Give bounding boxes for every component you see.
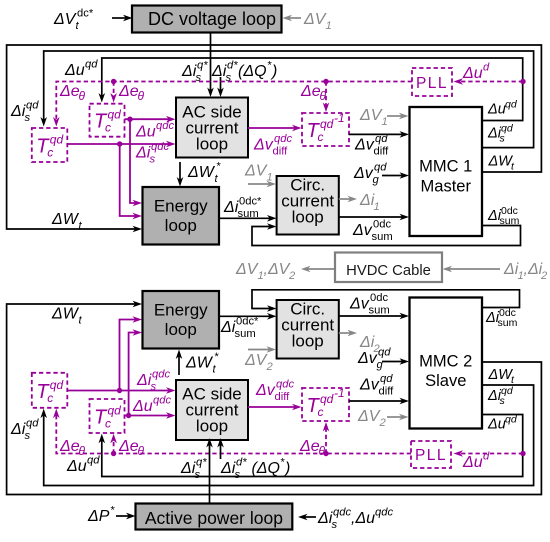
wire ΔP* into Active power loop xyxy=(116,513,136,520)
wire Δi_s^d*(ΔQ*) reference stub into AC side current loop xyxy=(217,77,224,97)
svg-text:Energy: Energy xyxy=(154,301,208,320)
wire Δi_s^qd feedback MMC1 to left T_c^qd xyxy=(40,51,533,148)
junction Δe_θ branch right bottom xyxy=(323,451,328,456)
wire Δi_s^qd feedback MMC2 to left T_c^qd xyxy=(40,385,533,486)
svg-text:loop: loop xyxy=(196,417,228,436)
wire Δu^qdc from middle T_c^qd to AC loop bottom xyxy=(125,412,176,419)
wire Δi_sum^0dc feedback MMC1 to Circ. current loop xyxy=(252,223,521,245)
wire Δv_diff^qd T_c^qd-1 to MMC1 xyxy=(349,131,409,138)
wire Active power loop output Δi_s^q* up to AC loop bottom xyxy=(206,438,213,504)
wire ΔV_2 into MMC2 (gray) xyxy=(387,414,409,421)
svg-text:ΔWt: ΔWt xyxy=(488,367,516,386)
svg-text:MMC 1: MMC 1 xyxy=(419,158,472,176)
wire Δv_sum^0dc Circ. loop to MMC2 xyxy=(339,313,409,320)
svg-text:loop: loop xyxy=(196,135,228,154)
transform T_c^qd (bottom middle) xyxy=(90,399,125,433)
wire Δi_s^qdc from left T_c^qd to AC loop bottom xyxy=(67,387,175,394)
wire Δe_θ branch to T_c^qd-1 bottom (dashed) xyxy=(323,422,330,454)
block AC side current loop (bottom) xyxy=(176,380,248,440)
svg-text:Δi0dcsum: Δi0dcsum xyxy=(487,205,520,227)
wire Δi_sum^0dc feedback MMC2 to Circ. loop xyxy=(252,290,520,312)
junction Δi_s^qdc branch xyxy=(117,141,122,146)
wire Δe_θ branch to middle T_c^qd bottom (dashed) xyxy=(110,434,117,454)
wire Δv_g^qd into MMC2 xyxy=(382,358,409,365)
wire Δi_s^qdc from left T_c^qd to AC side current loop xyxy=(67,141,175,148)
wire ΔV_1 disturbance into DC voltage loop (gray) xyxy=(283,15,302,22)
wire Δi_1 output of Circ. loop (gray) xyxy=(339,196,357,203)
transform T_c^qd-1 (bottom) xyxy=(302,386,349,421)
wire Δi_s^qdc branch up to Energy loop bottom xyxy=(120,316,143,390)
wire Δu^d tap into PLL bottom (dashed) xyxy=(454,450,524,457)
wire ΔV_1 into Circ. current loop (gray) xyxy=(248,181,276,188)
wire PLL output Δe_θ distribution (dashed) xyxy=(53,82,412,127)
block MMC 1 Master xyxy=(410,107,483,236)
wire HVDC cable to ΔV_1,ΔV_2 (gray) xyxy=(301,266,335,273)
block Energy loop (bottom) xyxy=(143,291,220,349)
transform T_c^qd (top middle) xyxy=(90,104,125,137)
svg-text:PLL: PLL xyxy=(415,447,447,464)
wire Δi_s^qdc branch down to Energy loop xyxy=(120,144,142,219)
svg-text:loop: loop xyxy=(292,332,324,351)
wire ΔW_t feedback MMC2 around outer frame to Energy loop xyxy=(7,301,542,495)
block Circ. current loop (bottom) xyxy=(277,300,339,359)
wire ΔW_t^* reference into Energy loop xyxy=(177,162,184,187)
svg-text:DC voltage loop: DC voltage loop xyxy=(148,9,276,29)
svg-text:loop: loop xyxy=(165,216,197,235)
svg-text:Energy: Energy xyxy=(154,197,208,216)
wire ΔV_1 into MMC1 (gray) xyxy=(387,113,409,120)
wire Δv_g^qd into MMC1 xyxy=(382,172,409,179)
svg-text:Active power loop: Active power loop xyxy=(145,508,283,528)
svg-text:Slave: Slave xyxy=(425,372,466,390)
junction Δi_s^qdc branch bottom xyxy=(117,388,122,393)
wire Δv_sum^0dc Circ. loop to MMC1 xyxy=(339,214,409,221)
block AC side current loop (top) xyxy=(176,98,248,158)
wire Δu^qd feedback MMC2 to middle T_c^qd xyxy=(99,415,523,477)
wire ΔV_t^dc* into DC voltage loop xyxy=(112,15,133,22)
wire Δe_θ branch to middle T_c^qd (dashed) xyxy=(110,82,117,103)
wire Δi_sum^0dc* Energy loop to Circ. current loop xyxy=(219,215,277,222)
wire Δv_diff^qdc AC loop to T_c^qd-1 xyxy=(248,125,302,132)
block Energy loop (top) xyxy=(143,187,220,245)
svg-text:ΔWt: ΔWt xyxy=(488,154,516,173)
wire Δu^qd feedback MMC1 to middle T_c^qd xyxy=(99,58,523,121)
wire Δu^qdc branch up to Energy loop bottom xyxy=(129,329,142,415)
junction Δu^qdc branch bottom xyxy=(126,413,131,418)
wire PLL output Δe_θ distribution bottom (dashed) xyxy=(53,409,411,454)
junction Δe_θ branch middle xyxy=(111,79,116,84)
wire Δu^d tap into PLL (dashed) xyxy=(454,78,524,85)
block PLL (bottom) xyxy=(411,441,451,468)
svg-text:PLL: PLL xyxy=(416,75,448,92)
svg-text:MMC 2: MMC 2 xyxy=(419,353,472,371)
junction Δu^d tap bottom xyxy=(520,451,525,456)
block MMC 2 Slave xyxy=(410,298,483,429)
block DC voltage loop xyxy=(132,6,282,33)
block PLL (top) xyxy=(412,68,452,96)
junction Δe_θ branch middle bottom xyxy=(111,451,116,456)
junction Δu^qdc branch xyxy=(127,117,132,122)
wire ΔV_2 into Circ. loop (gray) xyxy=(248,346,276,353)
block HVDC Cable xyxy=(335,253,442,283)
junction Δe_θ branch right xyxy=(323,79,328,84)
svg-text:loop: loop xyxy=(292,208,324,227)
svg-text:Master: Master xyxy=(421,178,472,196)
svg-text:HVDC Cable: HVDC Cable xyxy=(346,263,431,279)
svg-text:loop: loop xyxy=(165,320,197,339)
wire Δi_sum^0dc* Energy loop to Circ. loop bottom xyxy=(219,313,277,320)
transform T_c^qd (bottom left) xyxy=(32,373,68,408)
junction Δu^d tap on Δu^qd feedback xyxy=(520,79,525,84)
wire Δu^qdc branch down to Energy loop xyxy=(130,119,142,206)
block Active power loop xyxy=(136,504,293,530)
wire Δi_1,Δi_2 into HVDC cable (gray) xyxy=(443,266,501,273)
wire Δv_diff^qd T_c^qd-1 to MMC2 xyxy=(349,398,409,405)
wire Δi_s^qdc,Δu^qdc into Active power loop xyxy=(298,514,316,521)
wire Δu^qdc from middle T_c^qd to AC side current loop xyxy=(125,116,176,123)
wire Δi_s^d*(ΔQ*) reference stub bottom xyxy=(217,438,224,459)
transform T_c^qd-1 (top) xyxy=(302,111,349,146)
wire ΔW_t feedback MMC1 around outer frame to Energy loop xyxy=(7,45,542,232)
transform T_c^qd (top left) xyxy=(32,128,68,162)
wire ΔW_t^* reference into Energy loop bottom xyxy=(176,350,183,376)
wire DC voltage loop output Δi_s^q* down to AC side current loop xyxy=(207,33,214,98)
wire Δi_2 output of Circ. loop (gray) xyxy=(339,330,357,337)
svg-text:Δi0dcsum: Δi0dcsum xyxy=(485,307,518,329)
wire Δe_θ branch to T_c^qd-1 (dashed) xyxy=(323,82,330,113)
block Circ. current loop (top) xyxy=(277,176,339,235)
wire Δv_diff^qdc AC loop to T_c^qd-1 bottom xyxy=(248,404,302,411)
